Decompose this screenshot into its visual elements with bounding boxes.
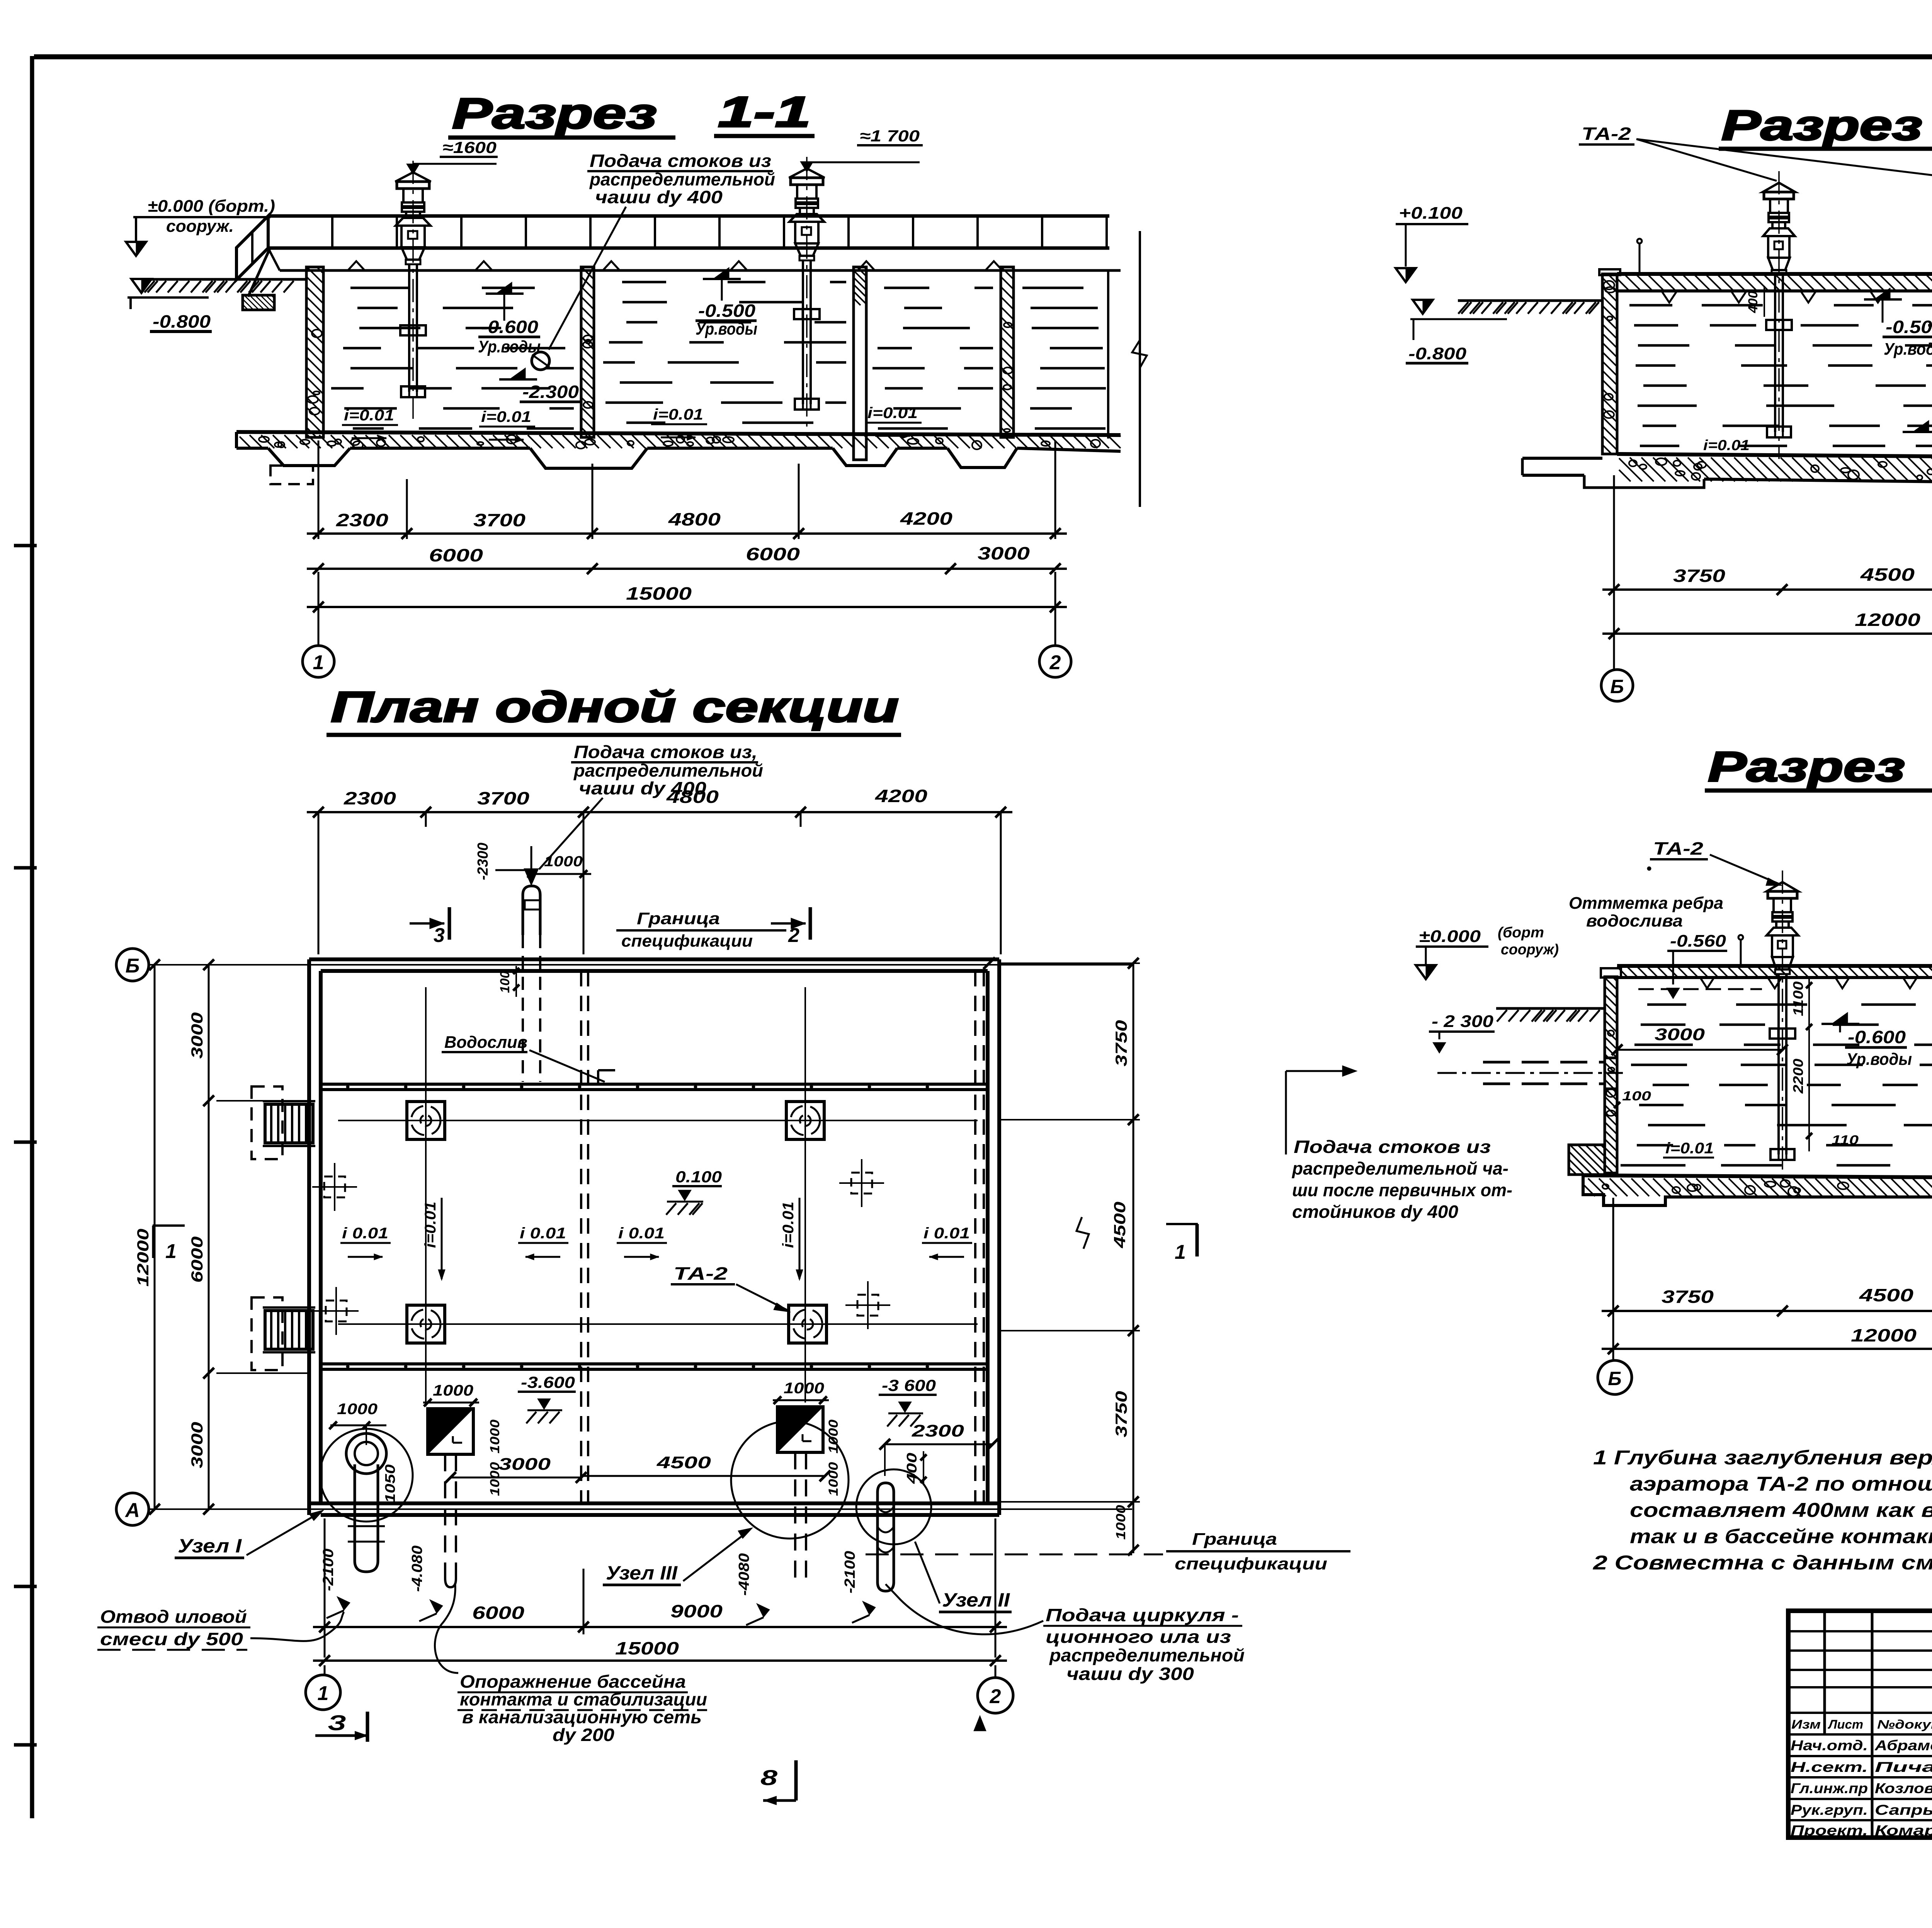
aerator axis line row 1 (plan) — [338, 1120, 978, 1121]
section mark 2 (plan top) — [771, 922, 806, 925]
svg-text:9000: 9000 — [670, 1601, 723, 1621]
water compartment 1 (1-1) — [350, 287, 409, 289]
uzel I pipe — [346, 1433, 386, 1474]
svg-text:Отвод иловой: Отвод иловой — [100, 1607, 247, 1627]
dim chain left 3000/6000/3000 (plan) — [208, 965, 210, 1509]
svg-text:2: 2 — [788, 924, 799, 947]
svg-text:Подача циркуля -: Подача циркуля - — [1046, 1605, 1239, 1625]
turbo-aerator TA-2 #1 (3-3) — [1767, 882, 1798, 891]
svg-text:-2300: -2300 — [475, 843, 491, 880]
aerator axis line row 2 (plan) — [338, 1323, 978, 1325]
svg-text:Гл.инж.пр: Гл.инж.пр — [1791, 1780, 1868, 1796]
handrail post a (3-3) — [1740, 940, 1742, 966]
svg-text:сооруж): сооруж) — [1501, 942, 1559, 958]
svg-text:распределительной: распределительной — [573, 760, 763, 780]
svg-text:i 0.01: i 0.01 — [342, 1225, 388, 1242]
svg-text:1050: 1050 — [382, 1464, 398, 1503]
svg-text:2: 2 — [1049, 651, 1061, 674]
svg-text:Граница: Граница — [637, 909, 720, 928]
axis circle A (plan) — [116, 1493, 149, 1525]
aerator TA-2 plan SW — [407, 1305, 445, 1343]
tank wall A (1-1 left) — [306, 267, 323, 437]
svg-text:1000: 1000 — [784, 1380, 824, 1397]
svg-text:1100: 1100 — [1790, 981, 1806, 1016]
section mark 1 right (plan) — [1166, 1223, 1198, 1225]
svg-text:400: 400 — [904, 1453, 920, 1484]
anchor cross 4 (plan) — [857, 1295, 878, 1316]
svg-text:-0.560: -0.560 — [1670, 932, 1726, 950]
ground hatch left 1-1 — [145, 281, 155, 292]
expansion joint 1 (plan) — [580, 971, 582, 1503]
section mark 1 left (plan) — [153, 1224, 185, 1227]
svg-text:1000: 1000 — [1114, 1505, 1128, 1540]
svg-text:110: 110 — [1832, 1133, 1859, 1148]
svg-text:400: 400 — [1746, 291, 1760, 313]
aerator TA-2 plan NW — [407, 1102, 445, 1139]
axis circle B (plan) — [116, 949, 149, 981]
elevation -2100 rot a (plan) — [320, 1549, 337, 1591]
granitsa spetsifikatsii (plan right) — [866, 1554, 1163, 1556]
level -0.600 (3-3) — [1832, 1012, 1848, 1024]
svg-text:i=0.01: i=0.01 — [653, 406, 703, 423]
tank wall D (1-1) — [1001, 267, 1014, 437]
svg-text:3000: 3000 — [498, 1455, 551, 1474]
svg-text:+0.100: +0.100 — [1399, 204, 1463, 223]
svg-text:распределительной: распределительной — [1049, 1645, 1245, 1665]
svg-text:ТА-2: ТА-2 — [673, 1263, 728, 1284]
svg-text:4800: 4800 — [668, 509, 721, 529]
svg-text:≈1600: ≈1600 — [442, 138, 497, 156]
gate 2 drop pipe — [794, 1452, 796, 1580]
inlet pipe stub (plan) — [523, 886, 540, 935]
svg-text:-0.500: -0.500 — [698, 301, 755, 321]
ground left (3-3) — [1496, 1007, 1605, 1010]
svg-text:i 0.01: i 0.01 — [923, 1225, 970, 1242]
svg-text:Водослив: Водослив — [444, 1033, 527, 1052]
svg-text:i=0.01: i=0.01 — [1703, 437, 1750, 454]
strut — [248, 247, 270, 297]
svg-text:15000: 15000 — [626, 583, 692, 604]
svg-text:4500: 4500 — [1859, 1285, 1914, 1305]
sheet edge tick 4 — [14, 1585, 37, 1588]
svg-text:i=0.01: i=0.01 — [481, 408, 531, 425]
svg-text:1 Глубина заглубления верхне: 1 Глубина заглубления верхней турбины ту… — [1593, 1447, 1932, 1469]
dim row 3750/4500/3750 (3-3) — [1602, 1310, 1932, 1312]
svg-text:-0.800: -0.800 — [153, 311, 211, 332]
svg-text:Ур.воды: Ур.воды — [478, 337, 541, 356]
svg-text:спецификации: спецификации — [1175, 1554, 1327, 1573]
svg-text:3000: 3000 — [978, 543, 1030, 563]
svg-text:4200: 4200 — [900, 508, 953, 529]
svg-text:1: 1 — [165, 1240, 177, 1263]
water compartment 4 (1-1) — [1022, 287, 1083, 289]
plan wall right — [986, 971, 990, 1503]
break line right 1-1 — [1107, 270, 1109, 439]
svg-text:-0.800: -0.800 — [1408, 344, 1467, 363]
elevation -2100 rot b (plan) — [842, 1551, 858, 1593]
ground line left (2-2) — [1458, 299, 1602, 302]
svg-text:Пичах и: Пичах и — [1875, 1759, 1932, 1775]
water compartment 3 (1-1) — [884, 287, 929, 289]
vertical dims 400/1100/2200/110 (2-2) — [1746, 291, 1760, 313]
anchor cross 3 (plan) — [326, 1301, 347, 1321]
svg-text:Узел III: Узел III — [606, 1562, 678, 1584]
ground line left 1-1 — [143, 278, 306, 281]
axis line A (plan) — [149, 1508, 1132, 1510]
svg-text:i 0.01: i 0.01 — [520, 1225, 566, 1242]
svg-text:Б: Б — [126, 955, 140, 977]
svg-text:i=0.01: i=0.01 — [780, 1202, 797, 1248]
svg-text:i=0.01: i=0.01 — [422, 1202, 439, 1248]
svg-text:Абрамович: Абрамович — [1874, 1738, 1932, 1753]
floor slab (2-2) — [1522, 457, 1602, 460]
svg-text:4200: 4200 — [875, 786, 928, 806]
svg-text:8: 8 — [760, 1765, 778, 1790]
svg-text:-0.600: -0.600 — [1848, 1027, 1906, 1047]
elevation -0.800 (1-1) — [131, 279, 151, 293]
svg-text:2200: 2200 — [1790, 1059, 1806, 1094]
svg-text:4500: 4500 — [1860, 564, 1915, 585]
axis circle B (2-2) — [1601, 670, 1633, 701]
weir wall 1 (plan) — [321, 1083, 988, 1086]
svg-text:З: З — [328, 1710, 346, 1735]
svg-text:-4.080: -4.080 — [409, 1545, 425, 1592]
svg-text:Ур.воды: Ур.воды — [1884, 340, 1932, 359]
break mark h (plan) — [1077, 1217, 1089, 1249]
svg-text:спецификации: спецификации — [621, 932, 753, 950]
plan wall top — [309, 957, 999, 961]
walkway slab 1-1 — [268, 214, 1109, 218]
floor slab (3-3) — [1583, 1175, 1932, 1178]
svg-text:А: А — [124, 1499, 140, 1522]
section mark 2 arrow (plan bottom) — [974, 1715, 986, 1731]
break line far right 1-1 — [1139, 231, 1141, 507]
svg-text:составляет 400мм как в бас: составляет 400мм как в бассейне стабилиз… — [1630, 1499, 1932, 1522]
dim row 2300/3700/4800/4200 (1-1) — [307, 532, 1067, 535]
svg-text:ТА-2: ТА-2 — [1582, 124, 1631, 144]
svg-text:Сапрыкин: Сапрыкин — [1875, 1802, 1932, 1818]
sheet edge tick 1 — [14, 544, 37, 547]
uzel III detail circle — [731, 1421, 849, 1539]
axis circle 2 (1-1) — [1039, 646, 1071, 677]
aerator TA-2 plan SE — [789, 1305, 827, 1343]
svg-text:чаши dy 300: чаши dy 300 — [1066, 1664, 1194, 1684]
uzel II detail circle — [856, 1469, 931, 1544]
elevation -2.300 (1-1) — [509, 368, 526, 379]
sheet border top — [34, 54, 1932, 60]
dim row top 2300/3700/4800/4200 (plan) — [307, 811, 1012, 813]
level -0.600 (1-1) — [496, 282, 512, 294]
svg-text:12000: 12000 — [134, 1229, 152, 1287]
svg-text:так и в бассейне контакта: так и в бассейне контакта — [1630, 1525, 1932, 1548]
svg-text:1000: 1000 — [433, 1382, 473, 1399]
svg-text:Лист: Лист — [1828, 1717, 1863, 1731]
dim chain left 12000 (plan) — [154, 965, 156, 1509]
svg-text:Комарова: Комарова — [1875, 1823, 1932, 1838]
top slab (2-2) — [1617, 272, 1932, 276]
dim 2300 (plan) — [885, 1443, 993, 1445]
water (2-2) — [1629, 304, 1672, 307]
uzel I detail circle — [320, 1429, 413, 1522]
dims 1100/2200/110 rot (3-3) — [1808, 978, 1810, 1151]
ladder lower (plan) — [265, 1311, 313, 1349]
dims 1000,1000 rot b (plan) — [826, 1420, 841, 1454]
tank left wall (2-2) — [1602, 274, 1617, 454]
svg-text:4800: 4800 — [666, 787, 719, 807]
svg-text:1000: 1000 — [337, 1401, 378, 1418]
podacha stokov label (3-3) — [1285, 1071, 1287, 1154]
level -0.500 (2-2) — [1874, 288, 1890, 299]
dim row 6000/9000 (plan) — [313, 1626, 1007, 1628]
svg-text:распределительной: распределительной — [589, 169, 775, 189]
svg-text:-2.300: -2.300 — [522, 382, 579, 402]
svg-text:Нач.отд.: Нач.отд. — [1791, 1738, 1868, 1753]
sluice gate 2 (plan) — [777, 1407, 823, 1452]
svg-text:±0.000: ±0.000 — [1419, 927, 1481, 946]
svg-text:dy 200: dy 200 — [553, 1725, 614, 1745]
svg-text:-3.600: -3.600 — [521, 1373, 575, 1391]
svg-text:-4080: -4080 — [736, 1553, 752, 1596]
beam under slab — [280, 269, 1121, 272]
svg-text:-0.500: -0.500 — [1886, 317, 1932, 337]
svg-text:1-1: 1-1 — [718, 88, 811, 136]
svg-text:Граница: Граница — [1192, 1530, 1277, 1549]
dim 400 rot (plan) — [904, 1453, 920, 1484]
svg-text:100: 100 — [1622, 1089, 1651, 1103]
aerator TA-2 plan NE — [786, 1102, 824, 1139]
svg-text:2300: 2300 — [344, 788, 396, 808]
svg-text:контакта и стабилизации: контакта и стабилизации — [460, 1689, 707, 1709]
elevation -4080 rot b (plan) — [736, 1553, 752, 1596]
svg-text:3000: 3000 — [1655, 1025, 1705, 1044]
dim row 12000 (3-3) — [1602, 1348, 1932, 1350]
oporozhnenie leader — [435, 1584, 458, 1673]
svg-text:3750: 3750 — [1673, 566, 1726, 586]
handrail post a (2-2) — [1639, 243, 1641, 274]
otvod leader curve — [250, 1612, 344, 1641]
svg-text:Рук.груп.: Рук.груп. — [1791, 1802, 1868, 1818]
svg-text:Узел II: Узел II — [942, 1589, 1010, 1611]
svg-text:i=0.01: i=0.01 — [344, 407, 394, 424]
svg-text:1000: 1000 — [488, 1420, 502, 1454]
dim row 6000/6000/3000 (1-1) — [307, 568, 1067, 570]
inlet pipe dashed (3-3) — [1483, 1061, 1605, 1064]
svg-text:i=0.01: i=0.01 — [1665, 1140, 1714, 1157]
title block grid — [1788, 1611, 1932, 1838]
gate 1 drop pipe — [444, 1454, 446, 1578]
svg-text:2: 2 — [990, 1685, 1001, 1708]
svg-text:100: 100 — [498, 971, 512, 993]
tank wall C (1-1) — [854, 267, 866, 460]
dims 1000,1000 rot a (plan) — [488, 1420, 502, 1454]
svg-text:Козловская: Козловская — [1875, 1780, 1932, 1796]
svg-text:-0.600: -0.600 — [481, 317, 538, 337]
svg-text:±0.000 (борт.): ±0.000 (борт.) — [148, 197, 275, 216]
water (3-3) — [1647, 1003, 1686, 1006]
svg-text:ТА-2: ТА-2 — [1653, 838, 1704, 859]
elevation -0.800 (2-2) — [1413, 300, 1433, 314]
svg-text:Разрез: Разрез — [1721, 102, 1922, 149]
inlet arrow -2300 (plan) — [475, 843, 491, 880]
anchor cross 2 (plan) — [851, 1173, 872, 1194]
svg-text:3750: 3750 — [1662, 1287, 1714, 1307]
ground anchor block — [243, 295, 274, 310]
svg-text:Узел I: Узел I — [178, 1535, 242, 1557]
svg-text:3750: 3750 — [1112, 1391, 1130, 1437]
top slab (3-3) — [1617, 964, 1932, 968]
svg-text:Опоражнение бассейна: Опоражнение бассейна — [460, 1671, 686, 1692]
dim 4500 (plan) — [581, 1475, 825, 1477]
svg-text:2 Совместна с данным см л: 2 Совместна с данным см листы ТХ-1 и ТХ-… — [1593, 1552, 1932, 1574]
slope i=0.01 plan 2v — [422, 1202, 439, 1248]
svg-text:Оттметка ребра: Оттметка ребра — [1569, 894, 1723, 913]
weir wall 2 (plan) — [321, 1362, 988, 1365]
tank wall B (1-1) — [581, 267, 594, 437]
sheet edge tick 3 — [14, 1141, 37, 1144]
svg-text:в канализационную сеть: в канализационную сеть — [462, 1707, 702, 1727]
svg-text:№докум.: №докум. — [1877, 1717, 1932, 1731]
svg-text:водослива: водослива — [1586, 911, 1683, 930]
dim row 15000 (1-1) — [307, 606, 1067, 608]
foundation blocks left (3-3) — [1569, 1145, 1605, 1175]
svg-text:1000: 1000 — [826, 1420, 841, 1454]
elevation -4.080 rot a (plan) — [409, 1545, 425, 1592]
svg-text:-3 600: -3 600 — [882, 1376, 936, 1394]
svg-text:1: 1 — [313, 651, 324, 674]
axis circle 2 (plan) — [978, 1678, 1013, 1713]
svg-text:i 0.01: i 0.01 — [618, 1225, 665, 1242]
svg-text:-2100: -2100 — [320, 1549, 337, 1591]
svg-text:6000: 6000 — [429, 545, 483, 565]
expansion joint 2 (plan) — [974, 971, 976, 1503]
svg-text:Проект.: Проект. — [1791, 1823, 1868, 1838]
dim row 3750/4500/3750 (2-2) — [1602, 588, 1932, 591]
svg-text:смеси dy 500: смеси dy 500 — [100, 1629, 243, 1649]
svg-text:аэратора ТА-2 по отношению: аэратора ТА-2 по отношению уровня воды — [1630, 1473, 1932, 1495]
svg-text:Ур.воды: Ур.воды — [1846, 1050, 1912, 1069]
dim 1050 rot (uzel I) — [382, 1464, 398, 1503]
axis line B (plan) — [149, 964, 1132, 966]
svg-text:0.100: 0.100 — [675, 1168, 722, 1186]
svg-text:3000: 3000 — [188, 1422, 206, 1468]
dim 100 (plan) — [498, 971, 512, 993]
plan wall bottom — [309, 1501, 999, 1505]
svg-text:Изм: Изм — [1791, 1717, 1821, 1731]
anchor cross 1 (plan) — [324, 1177, 345, 1197]
svg-text:(борт: (борт — [1498, 925, 1544, 941]
dim row 15000 (plan) — [313, 1659, 1007, 1662]
svg-text:3: 3 — [434, 924, 445, 947]
sheet edge tick 2 — [14, 866, 37, 870]
svg-text:стойников dy 400: стойников dy 400 — [1292, 1202, 1458, 1222]
svg-text:15000: 15000 — [615, 1638, 679, 1658]
svg-text:1: 1 — [318, 1682, 329, 1705]
svg-text:4500: 4500 — [1111, 1202, 1129, 1248]
svg-text:Разрез: Разрез — [452, 89, 657, 138]
svg-text:1000: 1000 — [826, 1462, 841, 1496]
dim row 12000 (2-2) — [1602, 632, 1932, 635]
svg-text:Ур.воды: Ур.воды — [696, 320, 757, 338]
svg-text:2300: 2300 — [336, 510, 389, 530]
svg-text:6000: 6000 — [188, 1236, 206, 1283]
dim chain right 3750/4500/3750/1000 (plan) — [1133, 963, 1134, 1553]
svg-text:3000: 3000 — [188, 1012, 206, 1059]
svg-text:≈1 700: ≈1 700 — [860, 127, 920, 145]
water compartment 2 (1-1) — [622, 281, 666, 284]
plan wall left — [307, 959, 311, 1515]
inlet pipe circle 1-1 — [532, 352, 549, 370]
svg-text:12000: 12000 — [1855, 610, 1921, 630]
svg-text:- 2 300: - 2 300 — [1432, 1012, 1494, 1031]
sluice gate 1 (plan) — [428, 1409, 473, 1454]
turbo-aerator TA-2 #1 (1-1) — [395, 172, 431, 182]
svg-text:2300: 2300 — [912, 1421, 964, 1440]
svg-text:сооруж.: сооруж. — [166, 217, 234, 236]
svg-text:6000: 6000 — [746, 544, 800, 564]
svg-text:3700: 3700 — [473, 510, 526, 530]
aerator axis col 2 (plan) — [804, 987, 806, 1403]
svg-text:-2100: -2100 — [842, 1551, 858, 1593]
svg-text:12000: 12000 — [1851, 1325, 1917, 1345]
svg-text:Подача стоков из,: Подача стоков из, — [574, 742, 757, 762]
tank left wall (3-3) — [1605, 977, 1617, 1173]
svg-text:Б: Б — [1608, 1368, 1621, 1389]
svg-text:3700: 3700 — [477, 788, 530, 808]
svg-text:4500: 4500 — [656, 1453, 711, 1472]
level -0.500 (1-1) — [713, 267, 729, 279]
floor slab 1-1 — [236, 432, 1121, 435]
aerator axis col 1 (plan) — [425, 987, 427, 1406]
svg-text:6000: 6000 — [472, 1603, 525, 1623]
axis circle 1 (plan) — [306, 1675, 340, 1710]
sheet edge tick 5 — [14, 1743, 37, 1747]
turbo-aerator TA-2 #2 (1-1) — [789, 168, 825, 178]
svg-text:чаши dy 400: чаши dy 400 — [595, 187, 723, 207]
axis circle 1 (1-1) — [303, 646, 334, 677]
axis circle B (3-3) — [1598, 1360, 1632, 1394]
svg-text:1000: 1000 — [488, 1462, 502, 1496]
dim 3000 (plan) — [451, 1477, 581, 1479]
turbo-aerator TA-2 #1 (2-2) — [1763, 183, 1795, 192]
svg-text:1000: 1000 — [544, 853, 583, 870]
svg-text:План одной секции: План одной секции — [331, 683, 899, 731]
podacha tsirk leader — [886, 1584, 1043, 1634]
slope i=0.01 plan 5v — [780, 1202, 797, 1248]
sheet border left — [30, 56, 34, 1818]
svg-text:Б: Б — [1610, 676, 1624, 697]
svg-text:i=0.01: i=0.01 — [867, 405, 918, 422]
section mark 3 (plan top) — [410, 922, 444, 925]
uzel II pipe — [878, 1483, 894, 1591]
svg-text:Разрез: Разрез — [1708, 743, 1905, 791]
svg-text:1: 1 — [1175, 1241, 1186, 1263]
svg-text:ши после первичных от-: ши после первичных от- — [1292, 1180, 1512, 1200]
svg-text:Подача стоков из: Подача стоков из — [1294, 1137, 1491, 1157]
ladder upper (plan) — [265, 1104, 313, 1143]
svg-text:Н.сект.: Н.сект. — [1791, 1759, 1868, 1775]
svg-text:3750: 3750 — [1112, 1020, 1130, 1066]
svg-text:ционного ила из: ционного ила из — [1046, 1627, 1231, 1647]
svg-text:Подача стоков из: Подача стоков из — [590, 151, 771, 171]
svg-text:распределительной ча-: распределительной ча- — [1291, 1158, 1509, 1178]
